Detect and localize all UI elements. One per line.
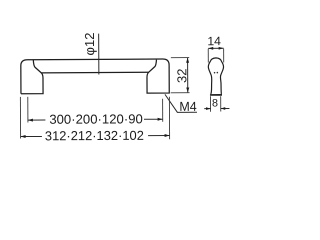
- svg-text:300·200·120·90: 300·200·120·90: [49, 111, 143, 126]
- side view 14 left arrow: [208, 47, 213, 50]
- svg-text:φ12: φ12: [82, 33, 97, 56]
- dimension 32 top arrow: [186, 58, 189, 63]
- dimension 32 bottom arrow: [186, 87, 189, 92]
- row2 right extension line (overall): [168, 97, 170, 139]
- row1 left arrow: [28, 119, 33, 122]
- handle outline front view: [21, 59, 169, 94]
- row2 dimension line right: [148, 134, 169, 136]
- side view 14 dimension line: [208, 47, 223, 49]
- side view 8 right extension line: [220, 96, 222, 111]
- side view 8 dimension left tail: [204, 108, 210, 110]
- row1 right arrow: [158, 118, 163, 121]
- svg-text:32: 32: [174, 68, 189, 83]
- side view 14 left extension line: [207, 49, 209, 63]
- row1 dimension line right: [144, 118, 163, 120]
- handle left foot bottom: [21, 60, 43, 94]
- side view 8 dim right arrow: [221, 107, 226, 110]
- handle bar bottom edge: [41, 71, 148, 74]
- dimension 32 line: [187, 58, 189, 92]
- row1 dimension line left: [28, 119, 45, 121]
- row1 left extension line (hole center): [27, 97, 29, 123]
- side view 8 dim left arrow: [206, 107, 211, 110]
- dimension 32 bottom extension line: [171, 92, 190, 94]
- side view body outline: [208, 58, 223, 94]
- side view center dots: [214, 72, 216, 74]
- side view mounting plate thick line: [210, 94, 222, 96]
- svg-text:14: 14: [207, 34, 221, 48]
- row2 dimension line left: [21, 135, 42, 137]
- dimension 32 top extension line: [171, 57, 189, 59]
- row1 right extension line (hole center): [162, 99, 164, 122]
- dimension phi12 leader line: [98, 34, 100, 75]
- side view 14 right arrow: [219, 47, 224, 50]
- row2 left arrow: [21, 135, 26, 138]
- side view 14 right extension line: [223, 49, 225, 63]
- side view 8 left extension line: [209, 96, 211, 111]
- svg-text:8: 8: [212, 97, 218, 109]
- M4 leader line: [165, 94, 197, 112]
- side view 8 dimension right tail: [221, 108, 230, 110]
- row2 right arrow: [165, 134, 170, 137]
- svg-text:M4: M4: [179, 99, 196, 114]
- svg-text:312·212·132·102: 312·212·132·102: [45, 128, 144, 144]
- row2 left extension line (overall): [19, 97, 21, 139]
